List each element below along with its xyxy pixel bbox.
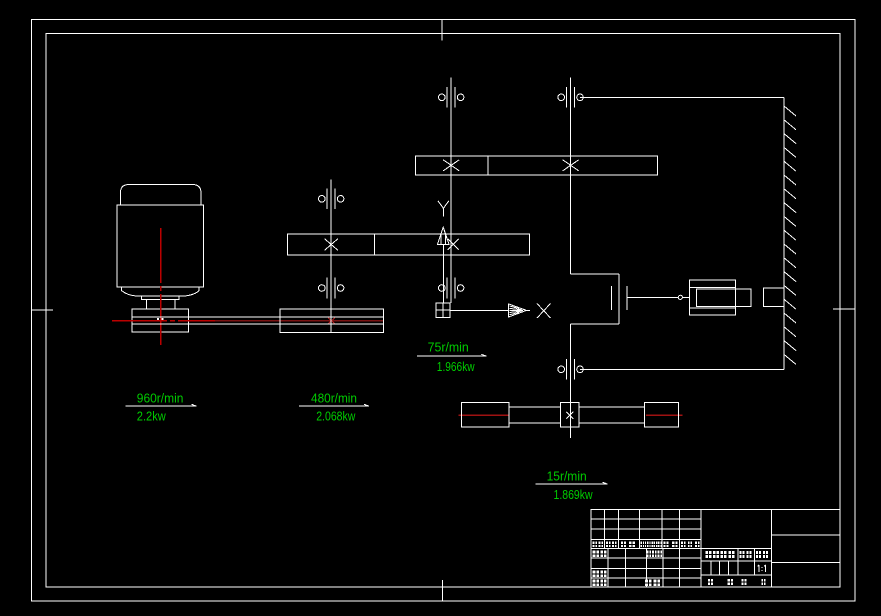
- piston rod: [696, 289, 751, 307]
- output arrowhead: [509, 304, 531, 317]
- underline 480: [299, 404, 369, 406]
- motor M1 skirt: [122, 287, 142, 296]
- pulley horizontal centerline (red dark): [215, 320, 383, 322]
- centering mark left: [31, 309, 53, 311]
- gear mesh cross shaft II / band1: [325, 239, 338, 251]
- bearing on shaft IV upper: [558, 87, 583, 108]
- svg-text:1.869kw: 1.869kw: [554, 487, 594, 502]
- pulley P1 on motor shaft: [132, 309, 189, 332]
- title block frame: [591, 510, 840, 588]
- cylinder body: [690, 280, 736, 315]
- svg-text:2.2kw: 2.2kw: [137, 409, 167, 424]
- screw drive arrowhead (triangle up): [438, 227, 450, 244]
- center mark dots: [157, 318, 159, 320]
- bearing on shaft II lower: [319, 278, 344, 299]
- frame top line: [580, 96, 784, 98]
- centering mark top: [441, 20, 443, 41]
- belt lower line: [132, 323, 384, 325]
- gear box band 2 divider: [487, 156, 489, 175]
- pulley P2 on shaft II: [280, 309, 384, 333]
- nut block (crossed square): [436, 303, 450, 317]
- svg-text:15r/min: 15r/min: [547, 469, 587, 484]
- shaft IV upper segment: [570, 78, 572, 274]
- motor vertical centerline (red): [160, 228, 162, 345]
- screw shaft left bar: [509, 407, 561, 423]
- title block header row text blobs: [593, 542, 700, 548]
- pulley horizontal centerline (red bright): [112, 320, 215, 322]
- motor M1 cap: [121, 185, 201, 205]
- underline 15: [535, 482, 607, 484]
- svg-text:960r/min: 960r/min: [137, 391, 184, 406]
- screw shaft right block: [644, 403, 678, 428]
- screw leader line: [442, 244, 444, 303]
- title block row label blobs: [593, 551, 663, 587]
- svg-text:2.068kw: 2.068kw: [316, 409, 356, 424]
- red cross at pulley P2 center: [328, 318, 335, 325]
- bearing on shaft III upper: [439, 87, 464, 108]
- bearing on shaft II upper: [319, 188, 344, 209]
- screw shaft left block: [461, 403, 509, 428]
- carriage bracket on shaft IV: [571, 274, 620, 324]
- bearing on shaft III lower: [439, 278, 464, 299]
- shaft III: [450, 78, 452, 304]
- svg-text:480r/min: 480r/min: [311, 391, 357, 406]
- coupling bars: [611, 286, 613, 310]
- load mark X: [537, 304, 551, 319]
- gear mesh cross shaft III / band2: [443, 160, 459, 171]
- bearing on shaft IV lower: [558, 359, 583, 380]
- Y direction symbol: [438, 201, 449, 217]
- shaft II: [330, 179, 332, 332]
- motor flange: [142, 296, 180, 299]
- worm wheel block on shaft IV: [561, 403, 579, 428]
- gear mesh cross worm mesh: [566, 412, 573, 419]
- wall hatching: [784, 106, 796, 364]
- title block stage mark blobs: [706, 551, 769, 558]
- frame bottom line: [580, 368, 784, 370]
- screw shaft right bar: [579, 407, 644, 423]
- svg-text:1.966kw: 1.966kw: [437, 359, 475, 374]
- centering mark right: [833, 308, 855, 310]
- underline 75: [417, 354, 486, 356]
- wall anchor block: [764, 288, 785, 307]
- gear box band 1: [287, 234, 529, 255]
- red centerline right block of screw shaft: [646, 414, 683, 416]
- gear mesh cross shaft III / band1: [448, 239, 459, 250]
- fixed wall line: [783, 97, 785, 369]
- underline 960: [126, 404, 197, 406]
- centering mark bottom: [442, 580, 444, 601]
- output line from nut: [450, 309, 509, 311]
- svg-text:75r/min: 75r/min: [428, 339, 469, 354]
- gear box band 2: [415, 156, 657, 175]
- gear box band 1 divider: [373, 234, 375, 255]
- motor neck: [146, 299, 175, 309]
- belt upper line: [132, 316, 384, 318]
- connecting rod: [627, 296, 678, 298]
- motor M1 body: [117, 205, 203, 287]
- shaft IV lower segment: [570, 324, 572, 438]
- sheet count blobs: [708, 579, 766, 585]
- red centerline left block of screw shaft: [459, 414, 510, 416]
- scale 1:1 text: [758, 565, 766, 572]
- gear mesh cross shaft IV / band2: [563, 160, 579, 171]
- joint circle: [678, 295, 682, 299]
